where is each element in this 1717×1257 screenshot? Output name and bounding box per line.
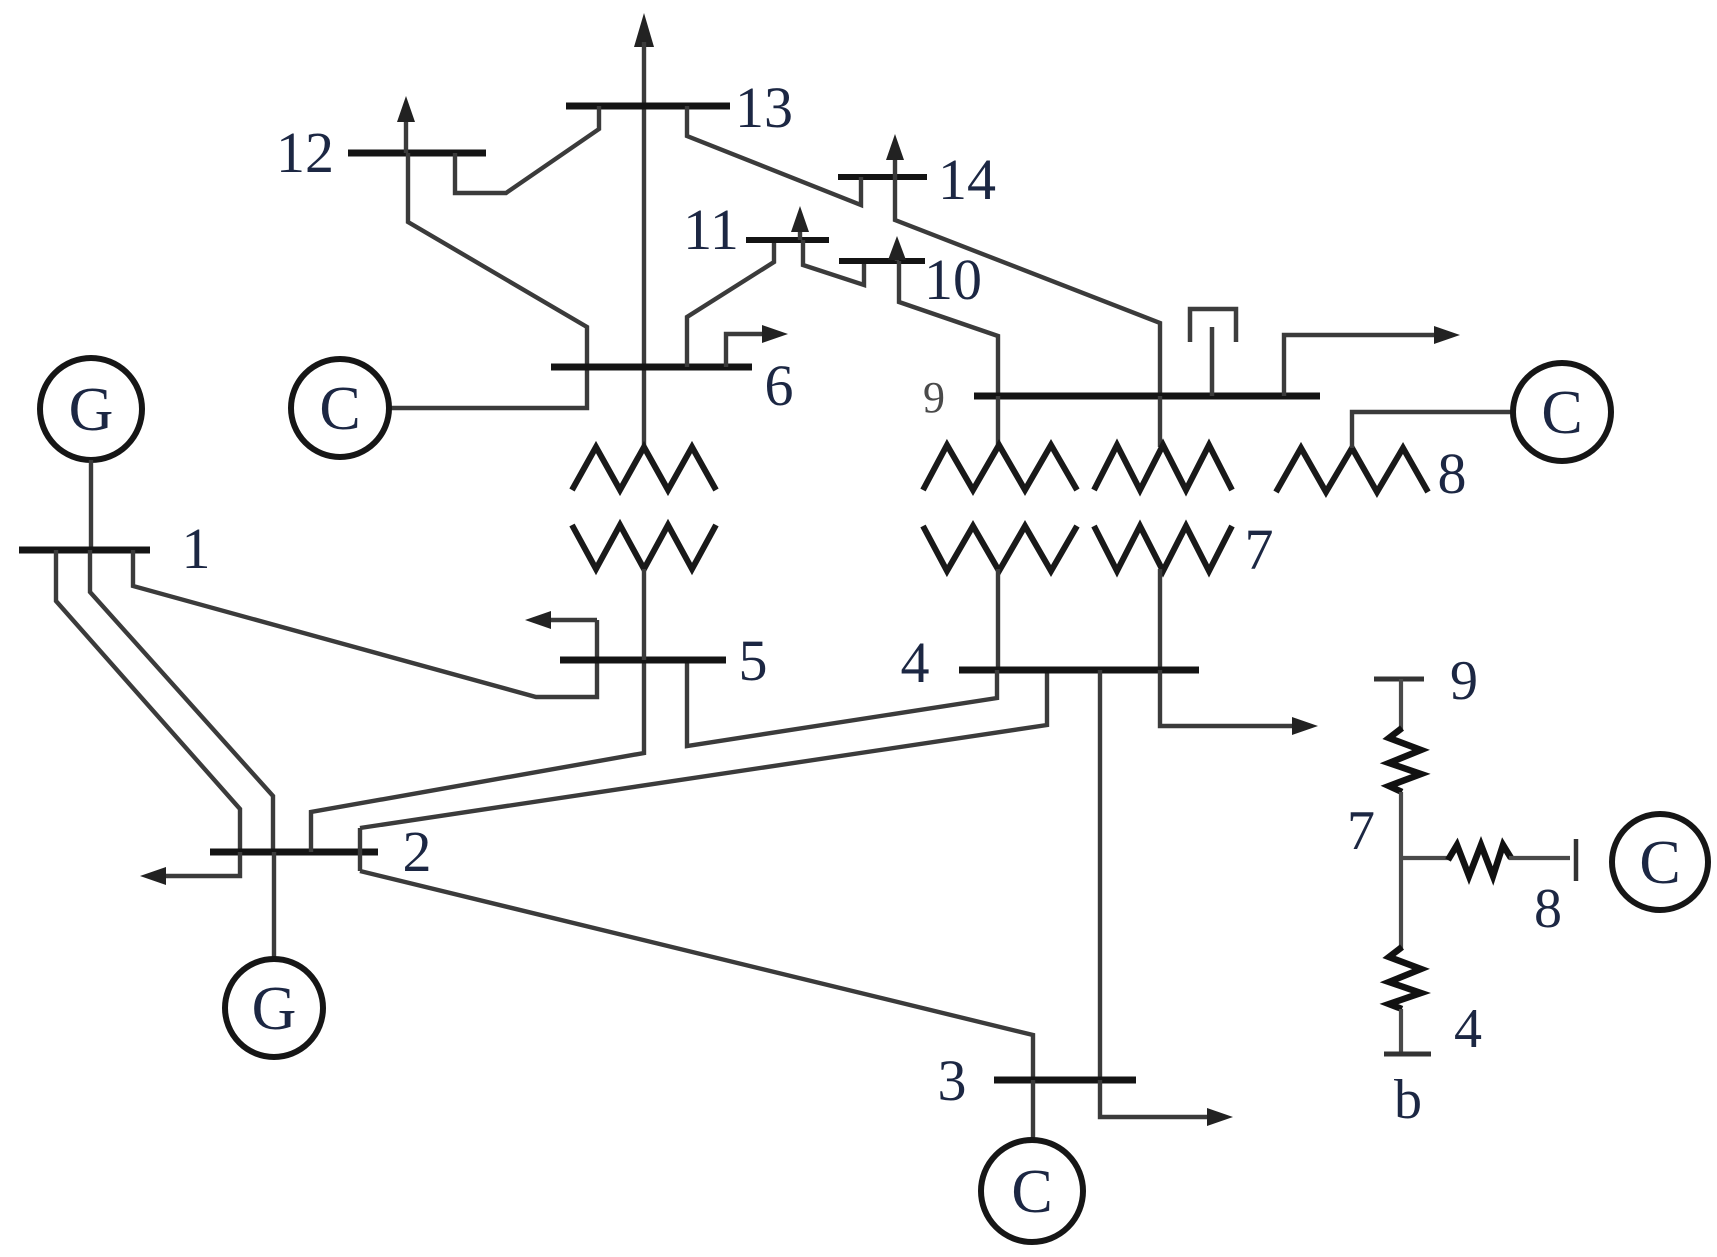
wire line 4-5 <box>687 660 997 746</box>
svg-text:12: 12 <box>276 120 334 185</box>
sub wire resistor 7-4 to bus 4 terminal <box>1399 1009 1403 1054</box>
svg-text:11: 11 <box>683 197 739 262</box>
sub bus 4 terminal <box>1384 1052 1431 1057</box>
wire line 12-13 <box>455 106 599 193</box>
generator G2 <box>225 959 323 1057</box>
svg-text:9: 9 <box>923 373 945 422</box>
transformer 4-9 lower winding <box>923 526 1077 571</box>
svg-text:C: C <box>1639 829 1680 897</box>
bus 5 <box>560 657 726 664</box>
load arrow bus 14 <box>886 134 904 177</box>
condenser C3 <box>981 1140 1083 1242</box>
svg-text:C: C <box>319 375 360 443</box>
wire bus 6 to condenser C6 <box>389 367 587 408</box>
wire line 2-4 <box>360 670 1047 828</box>
sub resistor 7-4 <box>1389 947 1421 1009</box>
svg-text:4: 4 <box>901 630 930 695</box>
wire line 12-6 <box>408 153 587 367</box>
svg-text:7: 7 <box>1245 517 1274 582</box>
svg-text:6: 6 <box>765 353 794 418</box>
wire bus 3 to condenser C3 <box>1031 1080 1035 1141</box>
transformer 5-6 lower winding <box>572 525 716 569</box>
load arrow bus 10 <box>888 236 906 261</box>
svg-text:b: b <box>1394 1069 1422 1131</box>
svg-text:13: 13 <box>735 75 793 140</box>
load arrow bus 2 <box>140 852 240 885</box>
wire bus 2 right junction <box>358 828 362 871</box>
bus 2 <box>210 849 378 856</box>
sub bus 8 terminal <box>1574 839 1579 881</box>
bus 1 <box>19 547 150 554</box>
svg-text:2: 2 <box>403 819 432 884</box>
svg-text:8: 8 <box>1438 441 1467 506</box>
wire line 9-14 <box>895 177 1160 396</box>
generator G1 <box>40 358 142 460</box>
wire bus 9 to transformer 4-7 winding <box>1158 396 1162 447</box>
transformer 4-9 upper winding <box>923 445 1077 490</box>
wire line 1-2 circuit a <box>56 550 240 852</box>
bus 12 <box>348 150 486 157</box>
svg-text:C: C <box>1541 379 1582 447</box>
sub resistor 9-7 <box>1389 728 1421 792</box>
bus 3 <box>994 1077 1136 1084</box>
transformer 4-7 lower winding <box>1094 526 1232 571</box>
load arrow bus 6 <box>726 325 788 367</box>
load arrow bus 5 <box>525 611 597 629</box>
condenser C sub-diagram <box>1612 814 1708 910</box>
svg-text:G: G <box>252 975 297 1043</box>
sub wire 9 to resistor 9-7 <box>1399 679 1403 730</box>
wire line 2-5 <box>311 660 644 852</box>
wire line 6-11 <box>687 240 774 367</box>
bus 6 <box>551 364 752 371</box>
wire line 9-10 <box>899 261 998 396</box>
svg-text:9: 9 <box>1450 650 1478 712</box>
wire line 10-11 <box>803 240 864 285</box>
sub wire resistor 7-8 to bus 8 terminal <box>1509 856 1570 860</box>
svg-text:1: 1 <box>182 516 211 581</box>
load arrow bus 13 <box>634 13 654 47</box>
wire bus 13 load stem / line 6-13 / wire to transformer 5-6 <box>642 42 646 447</box>
condenser C6 <box>291 359 389 457</box>
wire transformer 5-6 winding to bus 5 <box>642 569 646 660</box>
bus 4 <box>959 667 1199 674</box>
transformer winding 8 <box>1276 448 1428 492</box>
wire bus 2 to G2 <box>272 852 276 959</box>
wire line 3-4 <box>1098 670 1102 1080</box>
transformer 4-7 upper winding <box>1094 445 1232 490</box>
svg-text:C: C <box>1011 1158 1052 1226</box>
svg-text:4: 4 <box>1454 998 1482 1060</box>
svg-text:7: 7 <box>1347 800 1375 862</box>
sub wire node 7 to resistor 7-4 <box>1399 858 1403 949</box>
svg-text:10: 10 <box>924 247 982 312</box>
sub resistor 7-8 <box>1448 845 1511 876</box>
svg-text:G: G <box>69 376 114 444</box>
wire line 1-5 <box>133 550 597 697</box>
wire transformer 4-7 winding to bus 4 <box>1158 569 1162 670</box>
load arrow bus 11 <box>791 206 809 240</box>
sub-diagram bus 9 terminal <box>1374 677 1424 682</box>
sub wire resistor 9-7 to node 7 <box>1399 792 1403 858</box>
wire transformer 4-9 winding to bus 4 <box>996 569 1000 670</box>
load arrow bus 3 <box>1100 1080 1233 1126</box>
load arrow bus 4 <box>1160 670 1318 735</box>
bus 11 <box>746 237 829 243</box>
wire line 1-2 circuit b <box>90 550 273 852</box>
bus 9 <box>974 393 1320 400</box>
shunt capacitor bus 9 <box>1190 309 1236 396</box>
transformer 5-6 upper winding <box>572 447 716 490</box>
bus 10 <box>839 258 925 264</box>
bus 13 <box>566 103 730 110</box>
condenser C8 <box>1513 363 1611 461</box>
wire G1 to bus 1 <box>89 460 93 552</box>
svg-text:5: 5 <box>739 628 768 693</box>
wire line 13-14 <box>687 106 861 205</box>
svg-text:14: 14 <box>938 147 996 212</box>
load arrow bus 9 <box>1284 326 1460 396</box>
svg-text:8: 8 <box>1534 878 1562 940</box>
wire bus 9 to transformer 4-9 winding <box>996 396 1000 447</box>
svg-text:3: 3 <box>938 1048 967 1113</box>
wire winding 8 to condenser C8 <box>1352 412 1513 448</box>
bus 14 <box>838 174 927 180</box>
wire line 2-3 <box>360 871 1033 1080</box>
sub wire node 7 to resistor 7-8 <box>1401 856 1450 860</box>
load arrow bus 12 <box>397 96 415 153</box>
